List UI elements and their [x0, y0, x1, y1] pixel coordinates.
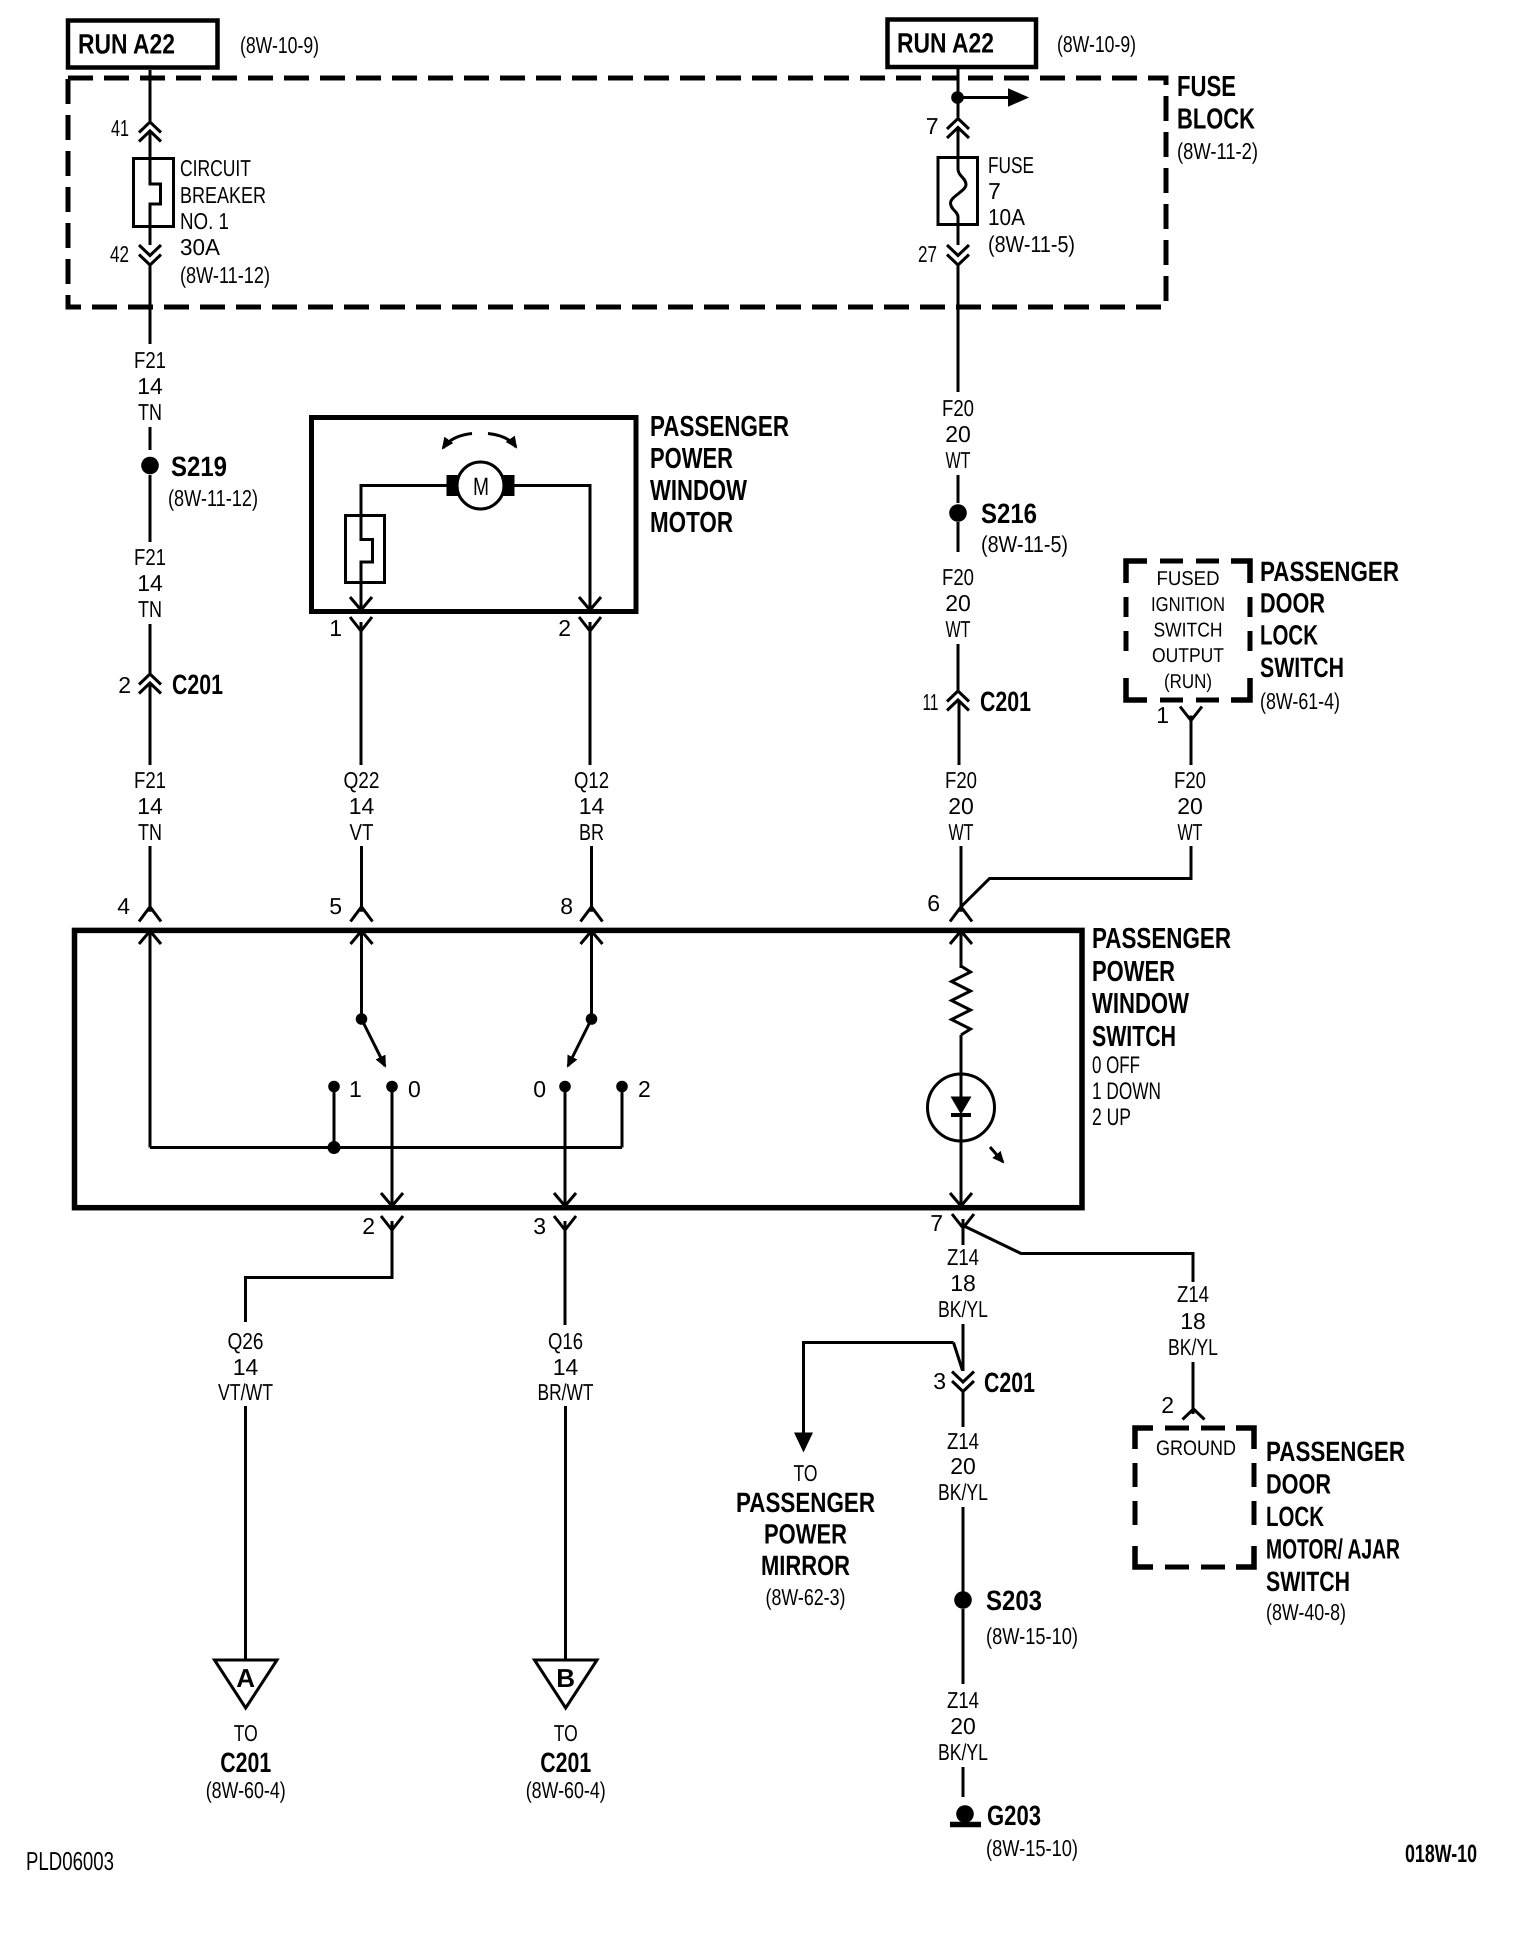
wire [957, 128, 960, 158]
svg-text:42: 42 [110, 241, 129, 267]
svg-text:MOTOR/ AJAR: MOTOR/ AJAR [1266, 1534, 1400, 1565]
wire from RUN A22 right [957, 69, 960, 118]
passenger power window motor box [312, 418, 637, 612]
svg-text:1: 1 [329, 615, 342, 641]
contact 0 (left) [386, 1076, 421, 1102]
svg-text:20: 20 [945, 590, 971, 616]
label FUSE 7 10A (8W-11-5) [988, 152, 1075, 257]
svg-text:3: 3 [533, 1213, 546, 1239]
wire label Q26 14 VT/WT [218, 1328, 273, 1405]
svg-text:WINDOW: WINDOW [650, 475, 747, 507]
svg-text:S216: S216 [981, 498, 1037, 529]
wire contact 0 right to pin 3 [564, 1087, 567, 1207]
svg-text:SWITCH: SWITCH [1260, 652, 1344, 683]
svg-text:1: 1 [349, 1076, 362, 1102]
connector C201 pin 2 [118, 669, 223, 700]
svg-text:PASSENGER: PASSENGER [1260, 556, 1399, 587]
wire motor right lead [515, 486, 591, 611]
wire F21 upper [149, 265, 152, 344]
contact 1 [328, 1076, 362, 1102]
svg-text:WT: WT [946, 447, 971, 473]
wire [960, 1035, 963, 1097]
svg-text:POWER: POWER [764, 1519, 847, 1550]
svg-text:C201: C201 [540, 1747, 591, 1778]
svg-text:14: 14 [137, 570, 163, 596]
svg-text:14: 14 [137, 793, 163, 819]
junction dot [951, 91, 964, 104]
svg-text:F21: F21 [134, 767, 166, 793]
svg-text:RUN A22: RUN A22 [78, 29, 175, 60]
wire jog into main column [954, 1343, 963, 1371]
header PASSENGER POWER WINDOW SWITCH [1092, 923, 1231, 1053]
svg-text:IGNITION: IGNITION [1151, 594, 1225, 616]
svg-text:(8W-15-10): (8W-15-10) [986, 1623, 1078, 1649]
svg-text:BR/WT: BR/WT [538, 1379, 594, 1405]
connector pin 8 (crow-foot) [560, 893, 602, 922]
svg-text:14: 14 [233, 1354, 259, 1380]
resistor [952, 966, 971, 1035]
svg-text:MOTOR: MOTOR [650, 507, 733, 539]
svg-text:PASSENGER: PASSENGER [1266, 1436, 1405, 1467]
svg-text:(8W-11-2): (8W-11-2) [1177, 138, 1258, 164]
svg-text:SWITCH: SWITCH [1092, 1021, 1176, 1053]
label FUSED IGNITION SWITCH OUTPUT (RUN) [1151, 568, 1225, 693]
motor pin 2 (crow-foot) [558, 615, 601, 641]
svg-text:S203: S203 [986, 1585, 1042, 1616]
svg-text:14: 14 [553, 1354, 579, 1380]
pin 2 arrow at box edge [381, 1193, 403, 1206]
svg-text:M: M [473, 473, 489, 501]
svg-text:F20: F20 [1174, 767, 1206, 793]
circuit breaker No. 1 [134, 131, 174, 245]
rotation arrows [443, 434, 516, 449]
wire [957, 475, 960, 503]
connector C201 pin 11 [923, 686, 1032, 717]
svg-text:(8W-60-4): (8W-60-4) [206, 1777, 286, 1803]
off-page connector A [215, 1660, 278, 1708]
pin 2 arrow at motor box edge [579, 597, 601, 610]
pin 4 arrow at box edge [139, 931, 161, 944]
svg-text:BK/YL: BK/YL [938, 1296, 988, 1322]
wire [149, 683, 152, 765]
svg-text:TN: TN [138, 819, 162, 845]
svg-text:BR: BR [579, 819, 604, 845]
svg-text:BREAKER: BREAKER [180, 182, 266, 208]
fuse block dashed box [68, 78, 1166, 307]
svg-text:30A: 30A [180, 234, 221, 260]
svg-text:41: 41 [111, 115, 129, 141]
svg-text:7: 7 [930, 1210, 943, 1236]
branch wire to door lock motor ground [964, 1226, 1193, 1282]
wire from door lock switch to pin 6 [961, 846, 1191, 907]
label TO PASSENGER POWER MIRROR (8W-62-3) [736, 1460, 875, 1610]
svg-text:Z14: Z14 [1177, 1281, 1209, 1307]
passenger power window switch box [75, 930, 1083, 1207]
svg-text:TO: TO [794, 1460, 818, 1486]
wire [957, 644, 960, 691]
connector pin 41 [111, 115, 161, 142]
ground G203 [950, 1800, 1078, 1861]
connector pin 42 [110, 241, 161, 267]
connector C201 pin 3 [933, 1367, 1035, 1398]
svg-text:C201: C201 [220, 1747, 271, 1778]
svg-text:0 OFF: 0 OFF [1092, 1052, 1140, 1079]
switch arm (up contact) [568, 1013, 597, 1066]
connector pin 7 [926, 113, 969, 139]
arrow to passenger power mirror [794, 1433, 813, 1453]
light emission arrow [990, 1147, 1003, 1162]
svg-text:14: 14 [137, 373, 163, 399]
svg-text:(8W-40-8): (8W-40-8) [1266, 1599, 1346, 1625]
wire label F20 20 WT (2) [942, 564, 974, 642]
wire label Q22 14 VT [344, 767, 380, 845]
svg-text:20: 20 [1177, 793, 1203, 819]
junction on rail [328, 1141, 341, 1154]
svg-text:PLD06003: PLD06003 [26, 1846, 114, 1876]
connector pin 27 [918, 241, 969, 267]
header PASSENGER POWER WINDOW MOTOR [650, 411, 789, 539]
label TO C201 (8W-60-4) right [526, 1720, 606, 1803]
svg-text:C201: C201 [172, 669, 223, 700]
wire to switch pin 5 [360, 846, 363, 912]
motor pin 1 (crow-foot) [329, 615, 372, 641]
wire [957, 225, 960, 245]
svg-text:F20: F20 [942, 564, 974, 590]
svg-text:20: 20 [950, 1453, 976, 1479]
switch pin 2 (crow-foot) [362, 1213, 403, 1239]
svg-text:20: 20 [945, 421, 971, 447]
svg-text:2: 2 [558, 615, 571, 641]
svg-text:(8W-11-5): (8W-11-5) [988, 231, 1075, 257]
svg-text:(8W-11-12): (8W-11-12) [168, 485, 258, 511]
splice S219 [141, 451, 258, 511]
label 0 OFF 1 DOWN 2 UP [1092, 1052, 1161, 1131]
svg-text:3: 3 [933, 1368, 946, 1394]
svg-text:DOOR: DOOR [1260, 588, 1325, 619]
wire label F20 20 WT (1) [942, 395, 974, 473]
fuse 7 [938, 158, 978, 226]
svg-text:VT/WT: VT/WT [218, 1379, 273, 1405]
net box RUN A22 (right) [888, 20, 1037, 68]
contact 0 (right) [533, 1076, 571, 1102]
svg-text:TO: TO [554, 1720, 578, 1746]
svg-text:(8W-60-4): (8W-60-4) [526, 1777, 606, 1803]
wire to connector A [244, 1406, 247, 1660]
wire pin 8 to pivot [590, 931, 593, 1019]
svg-text:LOCK: LOCK [1266, 1501, 1324, 1532]
wire motor left lead [361, 486, 447, 515]
svg-text:WT: WT [949, 819, 974, 845]
svg-text:A: A [236, 1663, 255, 1693]
connector pin 6 (crow-foot) [927, 890, 972, 922]
wire label Z14 18 BK/YL (branch) [1168, 1281, 1218, 1360]
svg-text:C201: C201 [980, 686, 1031, 717]
label TO C201 (8W-60-4) left [206, 1720, 286, 1803]
motor circuit breaker [346, 514, 385, 610]
contact 2 [616, 1076, 651, 1102]
branch wire to power mirror [804, 1343, 954, 1434]
svg-text:POWER: POWER [1092, 956, 1175, 988]
motor M [447, 462, 515, 509]
svg-text:TN: TN [138, 399, 162, 425]
svg-text:WINDOW: WINDOW [1092, 988, 1189, 1020]
svg-text:18: 18 [1180, 1308, 1206, 1334]
svg-text:2: 2 [118, 672, 131, 698]
svg-text:C201: C201 [984, 1367, 1035, 1398]
svg-text:2: 2 [1161, 1392, 1174, 1418]
wire [149, 427, 152, 450]
svg-text:6: 6 [927, 890, 940, 916]
pin 7 arrow at box edge [950, 1193, 972, 1206]
svg-text:18: 18 [950, 1270, 976, 1296]
wire [1192, 1362, 1195, 1414]
wire from RUN A22 left [149, 70, 152, 121]
svg-text:BK/YL: BK/YL [938, 1479, 988, 1505]
svg-text:G203: G203 [987, 1800, 1041, 1831]
svg-text:Z14: Z14 [947, 1244, 979, 1270]
switch pin 7 (crow-foot) [930, 1210, 974, 1236]
svg-text:F21: F21 [134, 347, 166, 373]
svg-text:20: 20 [948, 793, 974, 819]
svg-text:PASSENGER: PASSENGER [1092, 923, 1231, 955]
svg-text:FUSE: FUSE [988, 152, 1034, 178]
header FUSE BLOCK (8W-11-2) [1177, 71, 1258, 164]
svg-text:8: 8 [560, 893, 573, 919]
switch arm (down contact) [356, 1013, 385, 1066]
svg-text:LOCK: LOCK [1260, 620, 1318, 651]
svg-text:MIRROR: MIRROR [761, 1550, 850, 1581]
wire [962, 1392, 965, 1428]
svg-text:TO: TO [234, 1720, 258, 1746]
wire [962, 1609, 965, 1684]
pin 3 arrow at box edge [554, 1193, 576, 1206]
svg-text:OUTPUT: OUTPUT [1152, 645, 1224, 667]
svg-text:5: 5 [329, 893, 342, 919]
pin 8 arrow at box edge [581, 931, 603, 944]
connector pin 5 (crow-foot) [329, 893, 372, 922]
svg-text:2 UP: 2 UP [1092, 1104, 1131, 1131]
wire label Z14 18 BK/YL (main) [938, 1244, 988, 1322]
wire below pin 7 [962, 1219, 965, 1245]
svg-text:FUSE: FUSE [1177, 71, 1236, 103]
svg-text:10A: 10A [988, 204, 1026, 230]
wire F20 upper [957, 265, 960, 392]
svg-text:2: 2 [638, 1076, 651, 1102]
svg-text:SWITCH: SWITCH [1154, 620, 1223, 642]
svg-text:Z14: Z14 [947, 1687, 979, 1713]
fused ignition switch output box (dashed) [1126, 561, 1250, 700]
arrow to other fuse block circuits [963, 88, 1029, 106]
svg-text:BK/YL: BK/YL [1168, 1334, 1218, 1360]
wire LED to pin 7 [960, 1115, 963, 1206]
splice S203 [954, 1585, 1078, 1649]
svg-text:(RUN): (RUN) [1164, 671, 1212, 693]
off-page connector B [535, 1660, 598, 1708]
svg-text:F21: F21 [134, 544, 166, 570]
svg-text:2: 2 [362, 1213, 375, 1239]
wire to switch pin 8 [590, 846, 593, 912]
svg-text:VT: VT [350, 819, 374, 845]
svg-text:20: 20 [950, 1713, 976, 1739]
wire label Z14 20 BK/YL (lower) [938, 1687, 988, 1765]
wire [149, 475, 152, 542]
svg-text:POWER: POWER [650, 443, 733, 475]
svg-text:(8W-15-10): (8W-15-10) [986, 1835, 1078, 1861]
svg-text:(8W-11-12): (8W-11-12) [180, 262, 270, 288]
wire pin 6 into box [960, 931, 963, 968]
svg-text:GROUND: GROUND [1156, 1437, 1236, 1460]
wire main column to C201 [962, 1324, 965, 1371]
wire label Z14 20 BK/YL (upper) [938, 1428, 988, 1505]
svg-text:WT: WT [946, 616, 971, 642]
svg-text:Q12: Q12 [574, 767, 609, 793]
wire pin 5 to pivot [360, 931, 363, 1019]
wire label F20 20 WT (4) [1174, 767, 1206, 845]
pin 1 arrow at motor box edge [350, 597, 372, 610]
svg-text:14: 14 [349, 793, 375, 819]
svg-text:F20: F20 [942, 395, 974, 421]
wire [958, 700, 961, 765]
wire label F21 14 TN (2) [134, 544, 166, 622]
wire label F21 14 TN (3) [134, 767, 166, 845]
svg-text:(8W-10-9): (8W-10-9) [240, 32, 319, 58]
header PASSENGER DOOR LOCK SWITCH (8W-61-4) [1260, 556, 1399, 714]
wire to connector B [564, 1406, 567, 1660]
svg-text:7: 7 [926, 113, 939, 139]
svg-text:1 DOWN: 1 DOWN [1092, 1078, 1161, 1105]
svg-text:(8W-11-5): (8W-11-5) [981, 531, 1068, 557]
wire label Q16 14 BR/WT [538, 1328, 594, 1405]
svg-text:DOOR: DOOR [1266, 1469, 1331, 1500]
connector pin 4 (crow-foot) [117, 893, 161, 922]
svg-text:FUSED: FUSED [1157, 568, 1220, 590]
pin 5 arrow at box edge [351, 931, 373, 944]
wire [1190, 716, 1193, 766]
LED indicator [928, 1074, 995, 1141]
svg-text:11: 11 [923, 689, 939, 715]
svg-text:PASSENGER: PASSENGER [650, 411, 789, 443]
wire [149, 624, 152, 674]
svg-text:4: 4 [117, 893, 130, 919]
svg-text:RUN A22: RUN A22 [897, 28, 994, 59]
wire contact 1 to rail [333, 1087, 336, 1148]
pin 6 arrow at box edge [950, 931, 972, 944]
svg-text:0: 0 [408, 1076, 421, 1102]
svg-text:27: 27 [918, 241, 937, 267]
svg-text:0: 0 [533, 1076, 546, 1102]
svg-text:7: 7 [988, 178, 1001, 204]
wire label F21 14 TN (1) [134, 347, 166, 425]
wire to switch pin 4 [149, 846, 152, 912]
svg-text:NO. 1: NO. 1 [180, 208, 229, 234]
svg-text:018W-10: 018W-10 [1405, 1840, 1477, 1868]
svg-text:SWITCH: SWITCH [1266, 1566, 1350, 1597]
svg-text:B: B [556, 1663, 575, 1693]
svg-text:F20: F20 [945, 767, 977, 793]
switch rail [150, 1087, 622, 1148]
svg-text:PASSENGER: PASSENGER [736, 1487, 875, 1518]
svg-text:1: 1 [1156, 702, 1169, 728]
wire [360, 622, 363, 765]
wire [962, 1507, 965, 1592]
svg-text:BK/YL: BK/YL [938, 1739, 988, 1765]
wire pin 2 jog left [246, 1221, 393, 1322]
net box RUN A22 (left) [68, 21, 218, 68]
svg-text:Z14: Z14 [947, 1428, 979, 1454]
svg-text:BLOCK: BLOCK [1177, 104, 1255, 136]
switch pin 3 (crow-foot) [533, 1213, 576, 1239]
wire to switch pin 6 [960, 846, 963, 912]
svg-text:(8W-62-3): (8W-62-3) [766, 1584, 846, 1610]
wire [962, 1767, 965, 1797]
connector pin 2 (door lock motor) [1161, 1392, 1204, 1420]
svg-text:Q22: Q22 [344, 767, 380, 793]
wire pin 4 to rail [149, 931, 152, 1148]
wire label F20 20 WT (3) [945, 767, 977, 845]
svg-text:14: 14 [579, 793, 605, 819]
connector pin 1 of door lock switch [1156, 702, 1202, 728]
label CIRCUIT BREAKER NO. 1 30A (8W-11-12) [180, 155, 270, 288]
wire pin 3 down [564, 1221, 567, 1325]
header PASSENGER DOOR LOCK MOTOR/ AJAR SWITCH (8W-40-8) [1266, 1436, 1405, 1625]
svg-text:WT: WT [1178, 819, 1203, 845]
svg-text:TN: TN [138, 596, 162, 622]
wire contact 0 to pin 2 [391, 1087, 394, 1207]
wire [589, 622, 592, 765]
wire label Q12 14 BR [574, 767, 609, 845]
svg-text:Q26: Q26 [228, 1328, 264, 1354]
svg-text:Q16: Q16 [548, 1328, 583, 1354]
svg-text:S219: S219 [171, 451, 227, 482]
ground box (dashed) [1135, 1428, 1254, 1567]
splice S216 [949, 498, 1068, 557]
svg-text:CIRCUIT: CIRCUIT [180, 155, 251, 181]
svg-text:(8W-10-9): (8W-10-9) [1057, 31, 1136, 57]
wire [957, 522, 960, 552]
svg-text:(8W-61-4): (8W-61-4) [1260, 688, 1340, 714]
